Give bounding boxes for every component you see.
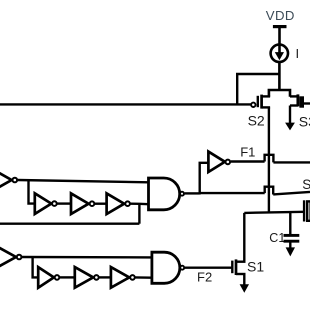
- wire trunk node X: [268, 107, 270, 212]
- wire C1 to ground arrow: [286, 243, 295, 257]
- inverter A3: [71, 193, 94, 214]
- wire F1 line to right edge: [273, 161, 310, 163]
- inverter A1 (first, top chain): [0, 170, 17, 190]
- VDD rail tick: [273, 25, 287, 28]
- wire diode-connect branch: [237, 74, 279, 104]
- wire G1 line to S4 gate: [273, 192, 310, 195]
- wire B2 to B3: [60, 276, 75, 278]
- wire B4 output to G2 lower input: [135, 276, 152, 279]
- wire A4 output to G1 lower input: [130, 202, 148, 205]
- svg-text:F2: F2: [197, 270, 212, 285]
- inverter B3: [75, 267, 99, 288]
- wire input to S2 gate: [0, 103, 251, 105]
- inverter F1: [208, 152, 230, 172]
- transistor S1: [232, 259, 245, 275]
- inverter A4: [107, 193, 130, 214]
- wire branch down to bottom chain: [33, 257, 39, 277]
- wire S1 source to ground arrow: [240, 274, 249, 293]
- wire bottom rail of top chain: [0, 222, 139, 224]
- inverter A2: [35, 193, 57, 214]
- wire G1 output to hop: [200, 192, 265, 194]
- svg-text:I: I: [296, 46, 300, 61]
- svg-text:S4: S4: [302, 177, 310, 192]
- inverter B2: [38, 267, 59, 288]
- wire rail to C1: [289, 212, 291, 234]
- wire rail to S1 drain: [243, 213, 245, 262]
- wire riser to F1 input: [200, 163, 209, 195]
- transistor S3: [290, 94, 310, 107]
- wire F2 output to S1 gate: [185, 267, 232, 269]
- wire B1 output rail to G2: [22, 256, 152, 259]
- inverter B4: [111, 267, 135, 288]
- NAND gate G1: [149, 178, 180, 210]
- transistor S4 (cut at edge): [304, 200, 311, 221]
- capacitor C1: [284, 235, 300, 241]
- wire S3 source with arrow: [285, 106, 295, 131]
- wire feedback tap down: [138, 204, 140, 224]
- svg-text:S1: S1: [247, 259, 264, 275]
- NAND G1 output bubble: [180, 192, 184, 196]
- wire G1 output: [185, 192, 200, 194]
- inverter B1 (first, bottom chain): [0, 247, 21, 267]
- wire hop over trunk (F1 line): [265, 155, 274, 163]
- current source I: [271, 45, 288, 62]
- wire A3 to A4: [95, 202, 107, 204]
- wire F1 output: [231, 160, 265, 162]
- svg-text:S3: S3: [299, 114, 310, 130]
- transistor S2: [251, 95, 270, 109]
- wire VDD stem: [278, 27, 281, 53]
- wire source-coupled crown: [269, 90, 290, 97]
- svg-text:VDD: VDD: [266, 8, 295, 23]
- wire current source to pair: [278, 62, 281, 91]
- wire A2 to A3: [57, 202, 71, 204]
- svg-text:C1: C1: [269, 231, 285, 245]
- wire A1 output rail to G1: [18, 180, 149, 182]
- wire hop over trunk (G1 line): [265, 187, 274, 195]
- svg-text:S2: S2: [248, 112, 265, 128]
- NAND gate G2: [152, 252, 180, 283]
- wire B3 to B4: [99, 276, 111, 278]
- wire node rail: [244, 212, 304, 213]
- svg-text:F1: F1: [240, 145, 255, 160]
- wire branch down to delay chain: [29, 180, 35, 203]
- NAND G2 output bubble: [180, 266, 184, 270]
